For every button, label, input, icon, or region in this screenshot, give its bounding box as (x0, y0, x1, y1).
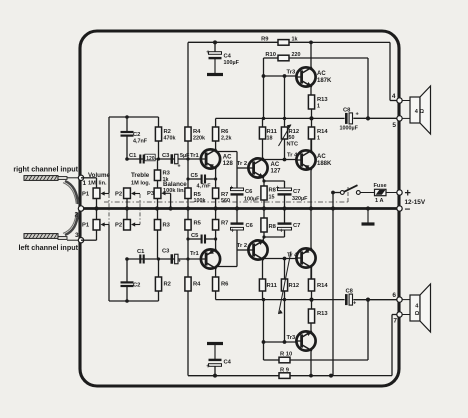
svg-text:R3: R3 (163, 171, 171, 177)
svg-text:C8: C8 (346, 289, 354, 295)
wire Tr3 emitter to R13 (310, 86, 312, 95)
svg-text:+: + (280, 229, 284, 235)
svg-text:R5: R5 (194, 221, 202, 227)
wire: Tr3' base wire (264, 341, 297, 343)
potentiometer P2 (treble, right channel) (124, 188, 131, 199)
resistor R12 50 NTC (281, 127, 287, 139)
svg-text:+: + (276, 185, 280, 191)
junction ground on bus (366, 206, 370, 210)
junction Tr3' base/R12' (283, 340, 287, 344)
wire P3 wiper to bus (170, 193, 172, 208)
junction R11 column on output rail (262, 117, 265, 120)
wire Tr1 emitter down (215, 168, 217, 188)
svg-text:R6: R6 (221, 282, 229, 288)
svg-text:Fuse: Fuse (374, 183, 387, 189)
wire Tr4' collector to R14' (310, 267, 312, 279)
svg-text:+: + (178, 164, 181, 170)
junction R12' column (283, 298, 286, 301)
resistor R2 470k (158, 117, 160, 127)
terminal 1 (right channel input) (78, 175, 83, 180)
svg-text:100k: 100k (194, 198, 206, 204)
wire Tr3 collector to supply rail (310, 42, 312, 68)
transistor Tr1 AC128 (201, 149, 220, 168)
capacitor C1 (left ch) (139, 255, 141, 264)
svg-text:left channel input: left channel input (19, 243, 79, 252)
svg-text:AC: AC (317, 71, 326, 77)
svg-text:50: 50 (289, 135, 295, 141)
svg-text:Tr1: Tr1 (190, 153, 199, 159)
resistor R10 220 (264, 57, 279, 59)
junction P3 column on bus (155, 206, 159, 210)
svg-text:100µF: 100µF (244, 197, 260, 203)
coax shield curve to terminal 2 (upper) (65, 181, 78, 204)
wire: bottom supply rail (188, 375, 392, 377)
resistor R4 220k (185, 127, 191, 141)
NTC arrow through R12 (left) (279, 252, 292, 315)
amplifier module outline (rounded enclosure box) (80, 31, 399, 386)
terminal 3 (left channel input) (78, 238, 83, 243)
svg-text:470k: 470k (164, 136, 176, 142)
svg-text:1k: 1k (163, 177, 169, 183)
wire P1 wiper riser to tone network (108, 117, 110, 194)
svg-text:C3: C3 (162, 249, 170, 255)
junction P2 column on bus (125, 206, 129, 210)
junction C5 left (186, 177, 189, 180)
wire: supply rail down to terminal 4 (389, 42, 391, 100)
junction switch column on bus (331, 206, 335, 210)
ground above C4' (214, 344, 216, 360)
svg-text:R13: R13 (317, 311, 328, 317)
wire C8' to terminal 6 (353, 299, 396, 301)
junction R4 on signal row (186, 157, 189, 160)
loudspeaker left channel 4 ohm (410, 295, 420, 321)
svg-text:right channel input: right channel input (13, 165, 78, 174)
P1' wiper arrow (103, 224, 109, 226)
wire: output rail left channel (216, 299, 345, 301)
junction R11' column (262, 298, 265, 301)
svg-text:C7: C7 (293, 189, 300, 195)
wire Tr2 emitter node (263, 177, 264, 181)
svg-text:Ω: Ω (415, 311, 420, 317)
svg-text:R11: R11 (267, 283, 278, 289)
wire Tr2 collector to Tr4 base wire (262, 158, 264, 160)
junction emitter node (left) (262, 235, 265, 238)
svg-text:1 A: 1 A (375, 198, 384, 204)
wire Tr1' emitter up (215, 230, 217, 250)
svg-text:+: + (231, 229, 235, 235)
wire: supply rail to R4 (187, 42, 189, 127)
wire terminal 6 to speaker (left) (402, 299, 410, 301)
P2' wiper arrow (134, 224, 141, 226)
svg-text:5: 5 (392, 122, 396, 129)
svg-text:R2: R2 (164, 129, 171, 135)
svg-text:R4: R4 (193, 282, 201, 288)
junction C2 top (125, 115, 129, 119)
svg-text:AC: AC (271, 162, 280, 168)
wire: centre supply bus from terminal 2 to minus terminal (81, 207, 399, 210)
transistor Tr3 AC187K (left ch) (296, 331, 315, 350)
junction R7 column on bus (214, 206, 218, 210)
svg-text:2: 2 (75, 212, 79, 219)
wire terminal 7 to speaker (left) (402, 314, 410, 316)
wire C8 to terminal 5 (353, 117, 396, 119)
svg-text:R14: R14 (317, 283, 328, 289)
svg-text:4,7nF: 4,7nF (133, 139, 148, 145)
resistor R13 1 (308, 95, 314, 109)
ground at battery (367, 209, 369, 225)
junction on signal row (left) (125, 257, 129, 261)
svg-text:4 Ω: 4 Ω (415, 109, 425, 115)
junction C4' on rail (213, 374, 217, 378)
transistor Tr4 AC188K (left ch) (296, 248, 315, 267)
svg-text:Tr3: Tr3 (287, 70, 296, 76)
wire: rail to terminal 7 (391, 315, 393, 376)
wire P2 to bus (126, 199, 128, 209)
svg-text:Treble: Treble (131, 172, 150, 179)
wire emitter node to C7 (264, 180, 285, 182)
junction C2/P2 column on signal row (125, 157, 129, 161)
capacitor C4 electrolytic (left ch) (214, 365, 216, 375)
junction P1 column on bus (94, 206, 98, 210)
svg-text:P1: P1 (82, 223, 90, 229)
junction R5 column on bus (186, 206, 190, 210)
svg-text:127: 127 (271, 168, 282, 174)
svg-text:15: 15 (269, 195, 275, 201)
dash-dot gang link P2 pair (139, 194, 141, 225)
svg-text:Tr 2: Tr 2 (237, 161, 247, 167)
svg-text:C1: C1 (137, 249, 145, 255)
svg-text:P2: P2 (115, 223, 122, 229)
svg-text:120: 120 (146, 156, 155, 162)
resistor R9 (left ch) (188, 375, 279, 377)
resistor R5 (left ch) (185, 220, 191, 231)
wire R11/R12 columns up to Tr3 base wire (263, 76, 265, 118)
wire R11'/R12' columns to Tr3' base wire (263, 300, 265, 342)
P1 wiper arrow (103, 193, 109, 195)
svg-text:C3: C3 (162, 153, 170, 159)
svg-text:lin.: lin. (99, 181, 108, 187)
junction R12 on Tr4 base wire (283, 158, 287, 162)
svg-text:100µF: 100µF (224, 60, 240, 66)
svg-text:C6: C6 (245, 189, 253, 195)
junction C8 output to terminal 5 (366, 116, 370, 120)
svg-text:3: 3 (75, 232, 79, 239)
coax cable right channel (24, 176, 58, 181)
resistor R3 (left ch) (157, 209, 159, 220)
svg-text:100k lin.: 100k lin. (163, 188, 186, 194)
svg-text:+: + (405, 188, 411, 200)
on/off switch (333, 192, 340, 194)
wire Tr3' collector to rail (310, 350, 312, 376)
junction R10 feed on Tr3 base (262, 74, 266, 78)
resistor R3 1k (157, 159, 159, 170)
transistor Tr1 AC128 (left ch) (201, 249, 220, 268)
svg-text:R7: R7 (221, 221, 228, 227)
junction C5' left (186, 237, 189, 240)
junction R9 right / Tr3 collector (309, 41, 313, 45)
svg-text:+: + (206, 364, 210, 370)
svg-text:C8: C8 (343, 108, 351, 114)
junction C7 column on bus (282, 206, 286, 210)
svg-text:Tr3: Tr3 (287, 335, 296, 341)
dash-dot gang link P1 pair (108, 194, 110, 225)
wire switch column (332, 193, 334, 376)
resistor R12 NTC (left ch) (281, 279, 287, 291)
wire Tr2' base (237, 249, 248, 251)
svg-text:AC: AC (223, 154, 232, 160)
terminal 4 (397, 98, 402, 103)
capacitor C4 100uF electrolytic (214, 42, 216, 52)
terminal 5 (397, 116, 402, 121)
svg-text:1: 1 (317, 136, 320, 142)
junction C8' to terminal 6 (366, 298, 370, 302)
wire P3 to bus (157, 199, 159, 209)
svg-text:1000µF: 1000µF (340, 126, 359, 132)
svg-text:C6: C6 (246, 223, 254, 229)
capacitor C8 1000uF electrolytic (345, 113, 348, 124)
svg-text:R10: R10 (265, 52, 276, 58)
plus battery terminal (397, 190, 402, 195)
junction C5 right on Tr1 emitter lead (214, 177, 217, 180)
coax cable left channel (24, 234, 58, 239)
junction R8 column on bus (262, 206, 266, 210)
svg-text:4: 4 (392, 93, 396, 100)
junction Tr3' collector on rail (309, 374, 313, 378)
NTC arrow through R12 (279, 125, 292, 147)
wire R10' to output node (left) (367, 300, 369, 360)
wire Tr1' collector node to Tr2' base column (216, 266, 237, 268)
capacitor C8 electrolytic (left ch) (345, 294, 348, 305)
wire bus to P2' (126, 209, 128, 220)
resistor R11 18 (259, 127, 265, 139)
junction R10' feed (262, 340, 266, 344)
svg-text:320µF: 320µF (292, 196, 308, 202)
svg-text:+: + (230, 186, 234, 192)
wire Tr1' collector down / R6' (215, 268, 217, 277)
terminal 6 (397, 297, 402, 302)
svg-text:NTC: NTC (287, 141, 299, 147)
svg-text:C1: C1 (129, 153, 137, 159)
svg-text:4,7nF: 4,7nF (197, 184, 212, 190)
junction switch column on bottom rail (329, 374, 333, 378)
wire terminal 5 to speaker (402, 117, 410, 119)
wire Tr1 collector up / R6 bottom (215, 141, 217, 150)
resistor R13 (left ch) (308, 309, 314, 323)
svg-text:1M: 1M (88, 181, 96, 187)
svg-text:R6: R6 (221, 129, 229, 135)
junction R12' on Tr4' base wire (283, 257, 287, 261)
svg-text:R12: R12 (289, 283, 300, 289)
junction R4' row (186, 257, 189, 260)
minus battery terminal (397, 206, 402, 211)
wire Tr3' emitter to R13' (310, 323, 312, 332)
junction Tr4 emitter on bus (309, 206, 313, 210)
svg-text:1k: 1k (292, 37, 298, 43)
wire Tr4' emitter to bus (310, 210, 312, 250)
transistor Tr2 AC127 (left ch) (248, 240, 267, 259)
junction C6 column on bus (235, 206, 239, 210)
junction emitter node (262, 179, 265, 182)
svg-text:C2: C2 (133, 283, 140, 289)
resistor R6 (left ch) (213, 277, 219, 291)
wire Tr4 collector to R14 (310, 139, 312, 151)
svg-text:−: − (405, 205, 411, 216)
svg-text:R 10: R 10 (280, 352, 292, 358)
wire R4 node down to C5/R5 (187, 159, 189, 188)
resistor R8 15 (261, 186, 267, 200)
resistor R14 1 (308, 127, 314, 139)
svg-text:560: 560 (221, 198, 230, 204)
wire: top supply rail (188, 41, 390, 43)
resistor R4 (left ch) (185, 277, 191, 291)
wire: signal row to Tr1 base (127, 158, 201, 160)
wire R4' node to C5'/R5' (187, 230, 189, 259)
wire P1' to bus (96, 209, 98, 220)
resistor R14 (left ch) (308, 279, 314, 291)
svg-text:1M log.: 1M log. (131, 181, 151, 187)
junction R12 column on output rail (283, 117, 286, 120)
svg-text:1: 1 (83, 180, 87, 187)
dash-dot mechanical link from volume control to on/off switch (104, 201, 348, 203)
capacitor C7 320uF electrolytic (278, 188, 292, 191)
resistor R10 (left ch) (264, 359, 280, 361)
terminal 2 (common/ground input) (78, 206, 83, 211)
svg-text:2,2k: 2,2k (221, 136, 232, 142)
wire P1' wiper riser (108, 225, 110, 302)
resistor R7 (left ch) (213, 220, 219, 231)
svg-text:C7: C7 (293, 223, 300, 229)
svg-text:C4: C4 (224, 360, 232, 366)
resistor R7 560 (213, 188, 219, 199)
capacitor C1 120 (139, 155, 141, 164)
capacitor C2 4.7nF (126, 117, 128, 132)
loudspeaker right channel 4 ohm (410, 97, 420, 123)
svg-text:1: 1 (317, 104, 320, 110)
resistor R8 (left ch) (261, 218, 267, 232)
transistor Tr2 AC127 (248, 158, 267, 177)
svg-text:C5: C5 (191, 233, 199, 239)
P2 wiper arrow (134, 193, 141, 195)
potentiometer P2 (treble, left channel) (124, 220, 131, 231)
capacitor C3 electrolytic (left ch) (171, 254, 174, 264)
svg-text:C5: C5 (191, 173, 199, 179)
ground below C4 (214, 58, 216, 74)
svg-text:P2: P2 (115, 192, 122, 198)
svg-text:C2: C2 (133, 132, 140, 138)
svg-text:128: 128 (223, 161, 234, 167)
svg-text:R13: R13 (317, 97, 328, 103)
junction C2' top (125, 299, 129, 303)
svg-text:P3: P3 (147, 191, 155, 197)
transistor Tr3 AC187K (296, 67, 315, 86)
junction Tr3 base/R12 column (283, 74, 287, 78)
wire Tr2' emitter node (263, 237, 264, 241)
transistor Tr4 AC188K (296, 150, 315, 169)
svg-text:220: 220 (292, 52, 301, 58)
svg-text:Tr1: Tr1 (190, 251, 199, 257)
coax shield curve to terminal 2 (lower) (65, 213, 78, 236)
svg-text:R4: R4 (193, 129, 201, 135)
resistor R2 (left ch) (158, 291, 160, 301)
svg-text:R11: R11 (267, 129, 278, 135)
svg-text:187K: 187K (317, 78, 332, 84)
capacitor C7 electrolytic (left ch) (278, 227, 292, 230)
svg-text:R3: R3 (163, 223, 171, 229)
junction R2/R3 on signal row (157, 157, 160, 160)
wire P1 to bus (96, 199, 98, 209)
wire emitter node to C7' (264, 236, 285, 238)
junction R2'/R3' row (157, 257, 160, 260)
potentiometer P1 (volume, right channel) (93, 188, 100, 199)
resistor R5 100k (185, 188, 191, 199)
wire Tr1 collector node to Tr2 base column (216, 151, 237, 153)
svg-text:+: + (178, 259, 181, 265)
junction switch feed (331, 191, 335, 195)
capacitor C6 electrolytic (left ch) (231, 227, 244, 230)
wire: feedback rail above tone network (109, 116, 159, 118)
svg-text:R 9: R 9 (280, 368, 290, 374)
wire R10 right to output node (367, 58, 369, 118)
wire terminal 4 to speaker (402, 100, 410, 102)
resistor R11 (left ch) (259, 279, 265, 291)
terminal 7 (397, 312, 402, 317)
wire: Tr4' base wire (263, 258, 297, 260)
junction R13'/R14' (309, 298, 313, 302)
P3 wiper arrow (164, 192, 171, 194)
svg-text:R9: R9 (261, 37, 269, 43)
wire: Tr4 base wire (263, 159, 297, 161)
value 120 (boxed) (145, 154, 155, 161)
svg-text:R14: R14 (317, 129, 328, 135)
wire: feedback rail above tone network (left ch) (109, 300, 159, 302)
svg-text:C4: C4 (224, 54, 232, 60)
junction C4 on supply rail (213, 40, 217, 44)
wire fuse to plus terminal (386, 192, 397, 194)
wire R6' to output rail corner (left) (215, 291, 217, 300)
svg-text:Tr 2: Tr 2 (237, 243, 247, 249)
fuse 1A (375, 189, 387, 195)
wire Tr2 base (237, 167, 248, 169)
wire Tr4 emitter to bus (310, 169, 312, 209)
wire: output rail right channel (216, 117, 345, 119)
wire: Tr3 base wire (264, 75, 297, 77)
svg-text:R8: R8 (269, 224, 277, 230)
wire R6 top to output rail corner (215, 118, 217, 127)
svg-text:220k: 220k (193, 136, 205, 142)
wire switch to fuse (360, 192, 374, 194)
svg-text:18: 18 (267, 136, 273, 142)
wire: signal row to Tr1' base (127, 258, 201, 260)
wire: rail to R4' column (187, 291, 189, 376)
svg-text:P1: P1 (82, 192, 90, 198)
junction C5' right (214, 237, 217, 240)
potentiometer P3 (balance) (154, 188, 161, 199)
junction P3 wiper on bus (169, 206, 173, 210)
resistor R9 1k (188, 41, 278, 43)
svg-text:+: + (206, 50, 210, 56)
potentiometer P1 (volume, left channel) (93, 220, 100, 231)
resistor R6 2.2k (213, 127, 219, 141)
svg-text:6: 6 (392, 292, 396, 299)
capacitor C6 100uF electrolytic (231, 188, 244, 191)
wire terminal 3 to P1' bottom (81, 239, 97, 241)
svg-text:AC: AC (317, 154, 326, 160)
svg-text:7: 7 (393, 318, 397, 325)
svg-text:R2: R2 (164, 282, 171, 288)
junction R13/R14 on output rail (309, 116, 313, 120)
capacitor C3 5uF electrolytic (171, 154, 174, 164)
wire terminal 1 to P1 top (81, 177, 97, 179)
